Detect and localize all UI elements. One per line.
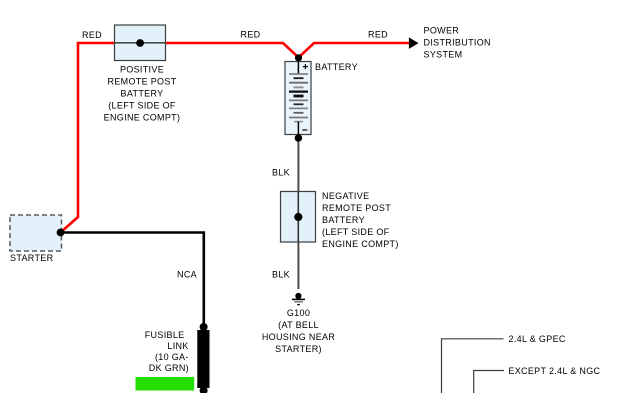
svg-text:RED: RED: [82, 30, 102, 40]
fusible link body: [197, 330, 209, 388]
svg-text:REMOTE POST: REMOTE POST: [107, 76, 176, 86]
battery box: [285, 62, 311, 135]
svg-text:FUSIBLE: FUSIBLE: [145, 330, 185, 340]
battery negative terminal line: [297, 122, 299, 135]
arrowhead to power distribution system: [409, 37, 419, 49]
battery minus sign: [302, 129, 307, 131]
wire BLK starter to fusible link: [61, 233, 204, 326]
svg-text:(10 GA-: (10 GA-: [155, 352, 189, 362]
svg-text:(LEFT SIDE OF: (LEFT SIDE OF: [322, 227, 390, 237]
fusible link top dot: [200, 323, 208, 331]
svg-text:STARTER: STARTER: [10, 253, 54, 263]
branch line EXCEPT 2.4L & NGC: [474, 371, 504, 393]
wire internal through negative post: [297, 192, 299, 242]
svg-text:G100: G100: [287, 308, 310, 318]
svg-text:SYSTEM: SYSTEM: [424, 49, 463, 59]
svg-text:STARTER): STARTER): [275, 344, 322, 354]
svg-text:ENGINE COMPT): ENGINE COMPT): [322, 239, 399, 249]
battery plus sign: [303, 66, 308, 68]
svg-text:DISTRIBUTION: DISTRIBUTION: [424, 38, 491, 48]
svg-text:ENGINE COMPT): ENGINE COMPT): [104, 112, 181, 122]
svg-text:NEGATIVE: NEGATIVE: [322, 191, 369, 201]
svg-text:DK GRN): DK GRN): [149, 363, 189, 373]
fusible link bottom dot: [200, 387, 208, 393]
node battery positive terminal dot: [295, 54, 302, 61]
svg-text:POWER: POWER: [424, 26, 460, 36]
ground G100 symbol: [295, 293, 301, 299]
svg-text:POSITIVE: POSITIVE: [120, 64, 164, 74]
svg-text:HOUSING NEAR: HOUSING NEAR: [262, 332, 336, 342]
svg-text:RED: RED: [368, 30, 388, 40]
node battery negative terminal dot: [295, 134, 303, 142]
svg-text:BATTERY: BATTERY: [322, 215, 365, 225]
battery cell plates: [289, 73, 308, 75]
svg-text:BATTERY: BATTERY: [315, 62, 358, 72]
svg-text:2.4L & GPEC: 2.4L & GPEC: [509, 334, 566, 344]
svg-text:RED: RED: [241, 30, 261, 40]
svg-text:(LEFT SIDE OF: (LEFT SIDE OF: [108, 100, 176, 110]
svg-text:LINK: LINK: [167, 341, 188, 351]
negative remote post battery box: [281, 192, 316, 243]
wire BLK battery negative to ground: [297, 135, 299, 290]
wire internal through positive post: [115, 42, 165, 44]
branch line 2.4L & GPEC: [442, 339, 504, 393]
battery positive terminal line: [297, 62, 299, 75]
positive remote post battery box: [115, 25, 166, 61]
svg-text:REMOTE POST: REMOTE POST: [322, 203, 391, 213]
svg-text:(AT BELL: (AT BELL: [278, 320, 319, 330]
svg-text:EXCEPT 2.4L & NGC: EXCEPT 2.4L & NGC: [508, 366, 600, 376]
svg-text:BLK: BLK: [272, 167, 290, 177]
node starter junction dot: [57, 229, 65, 237]
junction dot negative post: [294, 213, 302, 221]
svg-text:NCA: NCA: [177, 269, 197, 279]
wire RED starter to battery positive and power distribution: [61, 43, 411, 233]
junction dot positive post: [136, 39, 144, 47]
highlight green: [136, 377, 195, 391]
svg-text:BATTERY: BATTERY: [121, 88, 164, 98]
starter box (dashed): [10, 215, 62, 251]
svg-text:BLK: BLK: [272, 269, 290, 279]
